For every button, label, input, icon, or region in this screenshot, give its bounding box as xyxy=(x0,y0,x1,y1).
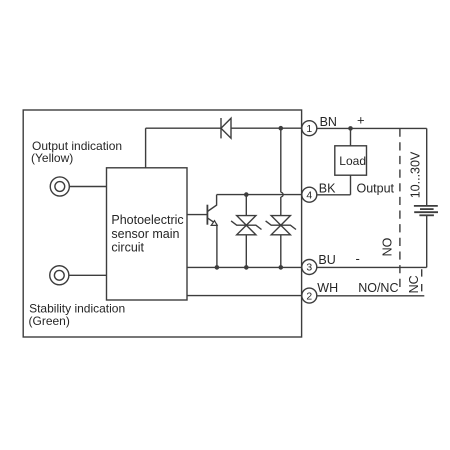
svg-text:sensor main: sensor main xyxy=(111,227,179,241)
svg-text:BK: BK xyxy=(319,181,336,195)
svg-text:4: 4 xyxy=(306,190,312,201)
svg-text:Output: Output xyxy=(357,181,395,195)
svg-text:2: 2 xyxy=(306,291,312,302)
svg-text:(Yellow): (Yellow) xyxy=(31,151,73,165)
svg-text:-: - xyxy=(356,251,360,266)
svg-text:10...30V: 10...30V xyxy=(408,151,422,198)
svg-text:NO/NC: NO/NC xyxy=(358,281,398,295)
svg-text:NO: NO xyxy=(381,237,395,256)
svg-text:+: + xyxy=(357,113,365,128)
svg-text:(Green): (Green) xyxy=(29,314,70,328)
svg-text:BN: BN xyxy=(320,115,337,129)
svg-text:Load: Load xyxy=(339,154,366,168)
svg-text:WH: WH xyxy=(317,281,338,295)
svg-text:3: 3 xyxy=(306,263,312,274)
svg-text:Photoelectric: Photoelectric xyxy=(111,213,183,227)
svg-text:circuit: circuit xyxy=(111,241,144,255)
svg-text:1: 1 xyxy=(306,124,312,135)
svg-text:NC: NC xyxy=(407,275,421,293)
svg-text:BU: BU xyxy=(318,253,335,267)
